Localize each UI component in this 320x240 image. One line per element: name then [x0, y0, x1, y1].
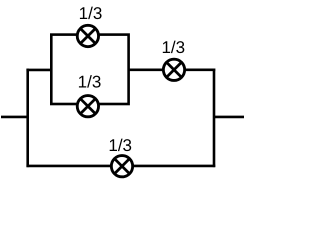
- terminal: left input stub: [1, 116, 28, 119]
- wire: outer left vertical rail: [26, 69, 29, 167]
- component X2 (crossed-circle, bottom inner branch): [77, 96, 98, 117]
- wire: inner parallel block rectangle (top branch, bottom branch, side rails): [51, 35, 128, 104]
- svg-text:1/3: 1/3: [79, 4, 103, 23]
- svg-text:1/3: 1/3: [161, 38, 185, 57]
- svg-text:1/3: 1/3: [78, 73, 102, 92]
- terminal: right output stub: [214, 116, 244, 119]
- wire: mid output segment from inner parallel block: [129, 69, 216, 72]
- wire: bottom branch rail: [26, 165, 215, 168]
- component X3 (crossed-circle, series element after parallel block): [163, 59, 184, 80]
- wire: outer right vertical rail: [213, 69, 216, 168]
- component X4 (crossed-circle, bottom outer branch): [111, 156, 132, 177]
- component X1 (crossed-circle, top inner branch): [77, 25, 98, 46]
- svg-text:1/3: 1/3: [108, 136, 132, 155]
- wire: input feed segment to inner parallel block: [26, 69, 51, 72]
